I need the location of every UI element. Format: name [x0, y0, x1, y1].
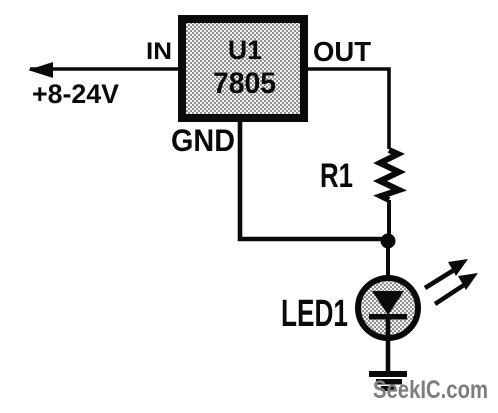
- svg-text:LED1: LED1: [281, 293, 348, 335]
- svg-text:GND: GND: [171, 122, 235, 158]
- svg-text:OUT: OUT: [313, 36, 371, 67]
- value label 7805: [213, 67, 276, 100]
- svg-text:SeekIC.com: SeekIC.com: [373, 376, 488, 404]
- wire: OUT lead right then down to resistor: [306, 69, 389, 149]
- svg-text:7805: 7805: [213, 67, 276, 100]
- label LED1: [281, 293, 348, 335]
- svg-text:U1: U1: [228, 35, 262, 65]
- light emission arrow lower: [435, 273, 478, 304]
- wire: junction to LED: [386, 241, 390, 292]
- light emission arrow upper: [425, 259, 468, 288]
- wire: LED cathode to ground: [386, 318, 391, 372]
- LED1 circle body: [358, 278, 418, 338]
- watermark SeekIC.com: [373, 376, 488, 404]
- label U1: [228, 35, 262, 65]
- pin label IN: [146, 38, 172, 65]
- ground symbol: [369, 371, 407, 391]
- svg-text:R1: R1: [320, 157, 353, 195]
- svg-text:+8-24V: +8-24V: [32, 79, 119, 109]
- pin label GND: [171, 122, 235, 158]
- label R1: [320, 157, 353, 195]
- LED1 cathode bar: [369, 314, 407, 320]
- arrowhead on +8-24V input (points left): [28, 62, 53, 78]
- wire: IN lead from arrow to U1: [30, 67, 180, 71]
- junction node dot: [381, 234, 396, 249]
- wire: GND lead down then right to junction: [240, 118, 389, 239]
- LED1 diode triangle: [372, 291, 404, 315]
- resistor R1: [380, 150, 399, 200]
- wire: resistor bottom to junction: [387, 200, 391, 241]
- pin label OUT: [313, 36, 371, 67]
- op-amp U1 regulator box 7805: [182, 19, 304, 118]
- svg-text:IN: IN: [146, 38, 172, 65]
- label +8-24V: [32, 79, 119, 109]
